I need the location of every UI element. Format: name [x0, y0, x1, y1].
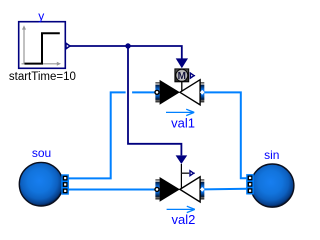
motor box [175, 69, 189, 82]
svg-text:M: M [178, 71, 186, 82]
input connector val2.y (filled triangle) [176, 155, 188, 164]
wire signal junction to val2.y [128, 46, 181, 155]
ports[3] [247, 188, 253, 194]
output connector y.y [66, 43, 70, 49]
port_b connector diamond [200, 187, 205, 192]
y_actual line [181, 172, 189, 174]
svg-text:val2: val2 [171, 212, 195, 227]
wire fluid val2.port_b to sin.ports[3] [204, 188, 247, 191]
sphere [251, 164, 294, 207]
stem [181, 82, 183, 93]
wire fluid sou.ports[1] to val1.port_a [66, 92, 155, 178]
ports[2] [247, 181, 253, 187]
ports[1] [247, 175, 253, 181]
wire fluid sou.ports[3] to val2.port_a [66, 189, 155, 191]
port_b cap (gray cylinder) [200, 82, 204, 102]
port_a connector circle [155, 90, 159, 94]
sink sin [247, 148, 294, 207]
flow arrow [167, 208, 195, 210]
stem [180, 164, 182, 189]
port_a cap (gray cylinder) [155, 82, 159, 102]
ports[2] [62, 181, 68, 187]
port_b connector diamond [200, 90, 205, 95]
bowtie left (filled) [160, 177, 180, 202]
port_b pipe (blue cylinder) [200, 85, 204, 100]
bowtie right (open) [180, 80, 200, 105]
node junction [125, 43, 130, 48]
crossing gap [126, 91, 133, 95]
valve val1 [155, 58, 205, 130]
flow arrow [166, 111, 194, 113]
svg-text:sou: sou [32, 146, 51, 160]
valve val2 [155, 155, 205, 227]
step block y [9, 9, 76, 83]
wire signal y.y to junction [68, 46, 182, 59]
bowtie left (filled) [160, 80, 180, 105]
y_actual connector val1 [190, 73, 194, 78]
y_actual connector val2 [190, 171, 194, 176]
svg-text:startTime=10: startTime=10 [9, 71, 76, 83]
sphere [19, 162, 63, 206]
gray x axis [22, 63, 59, 65]
bowtie right (open) [180, 177, 200, 202]
step curve [25, 33, 60, 63]
svg-text:val1: val1 [171, 115, 195, 130]
wire fluid val1.port_b to sin.ports[1] [204, 92, 247, 178]
svg-text:sin: sin [264, 148, 279, 162]
port_b pipe (blue cylinder) [200, 182, 204, 197]
port_b cap (gray cylinder) [200, 179, 204, 199]
gray y axis [23, 28, 25, 65]
port_a pipe (blue cylinder) [155, 182, 159, 197]
ports[1] [62, 175, 68, 181]
port_a cap (gray cylinder) [155, 179, 159, 199]
source sou [19, 146, 68, 206]
port_a connector circle [155, 187, 159, 191]
port_a pipe (blue cylinder) [155, 85, 159, 100]
input connector val1.y (filled triangle) [176, 58, 188, 68]
svg-text:y: y [38, 9, 44, 23]
ports[3] [62, 188, 68, 194]
